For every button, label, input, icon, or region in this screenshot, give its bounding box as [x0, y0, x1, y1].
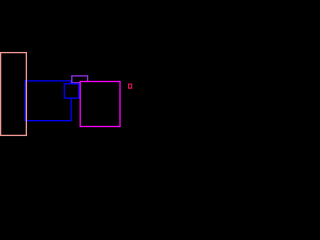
large blue rectangle — [25, 81, 71, 121]
small crimson rectangle — [129, 84, 132, 88]
small blue square — [64, 84, 79, 98]
purple rectangle — [72, 76, 88, 83]
salmon rectangle — [1, 53, 27, 136]
magenta rectangle — [80, 82, 120, 127]
